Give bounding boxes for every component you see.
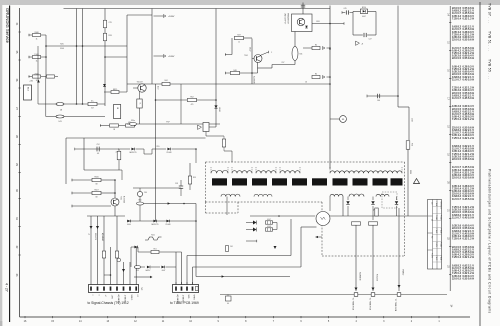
svg-text:1k: 1k bbox=[36, 38, 38, 40]
svg-text:LINE OUTPUT: LINE OUTPUT bbox=[284, 13, 286, 24]
svg-text:6B: 6B bbox=[96, 184, 98, 186]
svg-text:0.55 0.6 H: 0.55 0.6 H bbox=[463, 39, 475, 42]
svg-text:0.32 1.2 H: 0.32 1.2 H bbox=[463, 137, 475, 140]
svg-text:to TUBE PCB 1969: to TUBE PCB 1969 bbox=[170, 301, 199, 305]
svg-text:C61: C61 bbox=[230, 246, 233, 248]
svg-text:R26: R26 bbox=[109, 35, 112, 37]
svg-text:7.25 0.4: 7.25 0.4 bbox=[452, 17, 462, 20]
svg-text:R47: R47 bbox=[237, 35, 240, 37]
svg-text:P07: P07 bbox=[282, 62, 285, 64]
svg-text:R48: R48 bbox=[233, 70, 236, 72]
svg-text:1k: 1k bbox=[36, 80, 38, 82]
svg-text:0.45 5.0 H: 0.45 5.0 H bbox=[463, 198, 475, 201]
svg-text:0.45 5.0 H: 0.45 5.0 H bbox=[463, 216, 475, 219]
svg-text:7.25 0.4: 7.25 0.4 bbox=[452, 256, 462, 259]
svg-text:T502: T502 bbox=[120, 196, 122, 200]
svg-text:6040: 6040 bbox=[127, 224, 131, 226]
svg-text:FOCUS: FOCUS bbox=[376, 274, 378, 282]
svg-text:SCREEN: SCREEN bbox=[359, 272, 361, 281]
svg-text:C60: C60 bbox=[144, 192, 147, 194]
svg-text:BY448: BY448 bbox=[166, 224, 171, 226]
svg-text:0.32 1.2 H: 0.32 1.2 H bbox=[463, 118, 475, 121]
svg-text:11.5 0.7: 11.5 0.7 bbox=[452, 198, 462, 201]
svg-text:0.55 0.6 H: 0.55 0.6 H bbox=[463, 158, 475, 161]
svg-text:0.45 5.0 H: 0.45 5.0 H bbox=[463, 78, 475, 81]
svg-text:0.55 0.6 H: 0.55 0.6 H bbox=[463, 277, 475, 280]
svg-text:0.45 5.0 H: 0.45 5.0 H bbox=[463, 97, 475, 100]
svg-text:P 4-88: P 4-88 bbox=[439, 256, 441, 261]
svg-text:60: 60 bbox=[227, 303, 229, 305]
svg-text:TRANSISTOR: TRANSISTOR bbox=[286, 13, 289, 25]
svg-text:3906: 3906 bbox=[60, 48, 64, 50]
svg-text:T501: T501 bbox=[244, 55, 248, 57]
svg-text:R55: R55 bbox=[157, 146, 160, 148]
svg-text:TO TUBE PCB: TO TUBE PCB bbox=[352, 298, 354, 311]
svg-text:7.25 0.4: 7.25 0.4 bbox=[452, 118, 462, 121]
svg-text:R506: R506 bbox=[94, 177, 98, 179]
svg-text:22.0 0.5: 22.0 0.5 bbox=[452, 158, 462, 161]
svg-text:C25: C25 bbox=[109, 22, 112, 24]
svg-text:22.0 0.5: 22.0 0.5 bbox=[452, 177, 462, 180]
svg-text:2: 2 bbox=[91, 295, 93, 296]
svg-text:T60137: T60137 bbox=[137, 82, 143, 84]
svg-text:6047: 6047 bbox=[162, 270, 166, 272]
svg-text:6.8: 6.8 bbox=[97, 153, 99, 155]
svg-text:P 4-79: P 4-79 bbox=[431, 253, 433, 258]
svg-text:to Signal-Chassis (TV) 1912: to Signal-Chassis (TV) 1912 bbox=[88, 301, 129, 305]
svg-text:6B: 6B bbox=[96, 197, 98, 199]
svg-text:+185V: +185V bbox=[168, 16, 175, 18]
svg-text:VPRM: VPRM bbox=[192, 295, 194, 301]
svg-text:TO TUBE PCB: TO TUBE PCB bbox=[369, 298, 371, 311]
svg-text:TO TUBE SCN: TO TUBE SCN bbox=[394, 299, 396, 312]
svg-text:FB1: FB1 bbox=[316, 21, 319, 23]
svg-text:Platinenabbildungen und Schalt: Platinenabbildungen und Schaltpläne / La… bbox=[488, 169, 492, 314]
svg-text:0.32 1.2 H: 0.32 1.2 H bbox=[463, 17, 475, 20]
svg-text:6047: 6047 bbox=[362, 16, 366, 18]
svg-text:P 4-82: P 4-82 bbox=[435, 202, 437, 207]
svg-text:C45: C45 bbox=[343, 8, 346, 10]
svg-text:R44: R44 bbox=[164, 80, 167, 82]
svg-text:22.0 0.5: 22.0 0.5 bbox=[452, 57, 462, 60]
svg-text:22.0 0.5: 22.0 0.5 bbox=[452, 277, 462, 280]
svg-text:P 4-87: P 4-87 bbox=[435, 229, 437, 234]
svg-text:Reference: Reference bbox=[439, 202, 441, 209]
svg-text:1k: 1k bbox=[238, 42, 240, 44]
svg-text:3k7: 3k7 bbox=[91, 108, 94, 110]
svg-text:P 4-79: P 4-79 bbox=[435, 256, 437, 261]
svg-text:5556: 5556 bbox=[409, 170, 411, 174]
svg-text:+185: +185 bbox=[29, 81, 33, 83]
svg-text:C506: C506 bbox=[411, 118, 413, 122]
svg-text:2008: 2008 bbox=[34, 32, 38, 34]
svg-text:R60: R60 bbox=[139, 199, 142, 201]
svg-text:P 4-80: P 4-80 bbox=[435, 215, 437, 220]
svg-text:+185V: +185V bbox=[168, 56, 175, 58]
svg-text:R4: R4 bbox=[315, 45, 317, 47]
svg-text:D43: D43 bbox=[58, 121, 61, 123]
svg-text:0.32 1.2 H: 0.32 1.2 H bbox=[463, 256, 475, 259]
svg-text:C58: C58 bbox=[175, 183, 178, 185]
svg-text:0.32 1.2 H: 0.32 1.2 H bbox=[463, 238, 475, 241]
svg-text:HL: HL bbox=[139, 102, 141, 104]
svg-text:TVB 37 . . . TVB 51 . . .: TVB 37 . . . TVB 51 . . . TVB 55 . . . bbox=[488, 3, 492, 80]
svg-text:D1+: D1+ bbox=[91, 100, 94, 102]
svg-text:6507: 6507 bbox=[267, 219, 271, 221]
svg-text:60137: 60137 bbox=[249, 47, 251, 52]
svg-text:C47: C47 bbox=[369, 39, 372, 41]
svg-text:R41: R41 bbox=[300, 54, 303, 56]
svg-text:1B: 1B bbox=[113, 129, 115, 131]
svg-text:11.5 0.7: 11.5 0.7 bbox=[452, 97, 462, 100]
svg-text:R53: R53 bbox=[136, 270, 139, 272]
svg-text:GRUNDIG Service: GRUNDIG Service bbox=[5, 8, 10, 44]
svg-text:R507: R507 bbox=[94, 190, 98, 192]
svg-text:BY448: BY448 bbox=[167, 152, 172, 154]
svg-text:P 4-88: P 4-88 bbox=[439, 242, 441, 247]
svg-text:P 4-86: P 4-86 bbox=[439, 229, 441, 234]
svg-text:0.55 0.6 H: 0.55 0.6 H bbox=[463, 177, 475, 180]
svg-text:60488: 60488 bbox=[218, 107, 220, 112]
svg-text:470: 470 bbox=[191, 104, 194, 106]
svg-text:C46: C46 bbox=[377, 100, 380, 102]
svg-text:BU508A: BU508A bbox=[123, 196, 126, 203]
svg-text:0.55 0.6 H: 0.55 0.6 H bbox=[463, 57, 475, 60]
svg-text:1k: 1k bbox=[36, 60, 38, 62]
svg-text:VIDEO: VIDEO bbox=[130, 295, 132, 301]
svg-text:G2: G2 bbox=[136, 295, 138, 297]
svg-text:16: 16 bbox=[305, 82, 307, 84]
svg-text:9: 9 bbox=[97, 295, 99, 296]
svg-text:56: 56 bbox=[431, 219, 433, 221]
svg-text:R59: R59 bbox=[193, 177, 196, 179]
svg-text:7.25 0.4: 7.25 0.4 bbox=[452, 137, 462, 140]
svg-text:R4: R4 bbox=[315, 74, 317, 76]
svg-text:R51: R51 bbox=[153, 249, 156, 251]
svg-text:MF25: MF25 bbox=[113, 89, 117, 91]
svg-text:R25: R25 bbox=[60, 44, 63, 46]
svg-text:TV2: TV2 bbox=[140, 287, 142, 290]
svg-text:R50a: R50a bbox=[131, 120, 135, 122]
svg-text:4 - 27: 4 - 27 bbox=[5, 283, 9, 292]
svg-text:VIDEO: VIDEO bbox=[402, 269, 404, 276]
svg-text:11.5 0.7: 11.5 0.7 bbox=[452, 216, 462, 219]
svg-text:7.25 0.4: 7.25 0.4 bbox=[452, 238, 462, 241]
svg-text:R52: R52 bbox=[190, 96, 193, 98]
svg-text:R50: R50 bbox=[411, 143, 413, 146]
svg-text:SERVICE: SERVICE bbox=[94, 233, 96, 240]
svg-text:11.5 0.7: 11.5 0.7 bbox=[452, 78, 462, 81]
svg-text:B250: B250 bbox=[362, 7, 366, 9]
svg-text:P 4-75: P 4-75 bbox=[435, 242, 437, 247]
svg-text:Rs: Rs bbox=[372, 209, 374, 211]
svg-text:22.0 0.5: 22.0 0.5 bbox=[452, 39, 462, 42]
svg-text:6508: 6508 bbox=[267, 226, 271, 228]
svg-text:HL51: HL51 bbox=[151, 235, 155, 237]
svg-text:C52: C52 bbox=[96, 144, 99, 146]
svg-text:P 4-81: P 4-81 bbox=[439, 215, 441, 220]
